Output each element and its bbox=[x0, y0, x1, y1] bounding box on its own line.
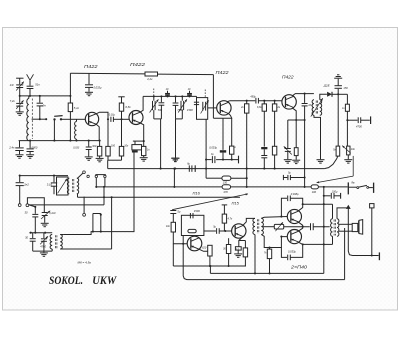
wire FM transformer bottom to bus C bbox=[77, 194, 79, 198]
svg-text:5,1к: 5,1к bbox=[74, 106, 80, 110]
gang dashes above IF box trimmer bbox=[204, 90, 206, 98]
svg-text:30: 30 bbox=[25, 211, 28, 215]
wire tank bus bbox=[143, 95, 196, 97]
transistor Q3 П422 IF amp 1 bbox=[217, 101, 231, 115]
antenna bbox=[27, 74, 30, 80]
wire Q2 collector riser to tank bus bbox=[140, 96, 143, 112]
capacitor on feedback box top bbox=[189, 213, 191, 218]
wire Q4 collector to IF transformer bbox=[293, 94, 314, 96]
wire jack down to bottom line bbox=[371, 208, 373, 256]
band switch contact circles row bbox=[87, 175, 89, 177]
svg-text:2,2к: 2,2к bbox=[146, 77, 153, 81]
terminal bar bottom right bbox=[378, 252, 380, 260]
wire 620 to bus D bbox=[209, 256, 211, 266]
trimmer capacitor 1/0 bbox=[16, 84, 23, 86]
wire tank riser 1 to bus A bbox=[160, 119, 162, 169]
wire rail F right riser bbox=[344, 228, 346, 280]
wire AM transformer right top bbox=[60, 234, 63, 236]
core line of L1 bbox=[31, 99, 33, 140]
ground below 1k bbox=[140, 157, 148, 159]
wire 2k down to resistor bbox=[274, 111, 276, 146]
capacitor 7500 bbox=[175, 96, 177, 102]
wire Q3 bias bus with series cap bbox=[206, 159, 212, 161]
wire rail E right riser bbox=[323, 244, 325, 273]
wire AM switch U loop bbox=[92, 214, 94, 232]
wire switch to oscillator section drop bbox=[53, 119, 55, 140]
wire coil tap to band switch bbox=[32, 118, 47, 120]
wire AM transformer left bottom ground link bbox=[51, 249, 53, 251]
wire primary bottom bbox=[332, 236, 334, 244]
interstage transformer secondary bbox=[261, 218, 263, 234]
wire antenna trimmer to input node bbox=[19, 88, 21, 96]
resistor 7k below transformer bbox=[269, 248, 271, 250]
feedback capacitor 0,048 upper bbox=[281, 198, 287, 216]
svg-text:0,033μ: 0,033μ bbox=[209, 146, 217, 150]
wire bus A AGC line bbox=[108, 168, 325, 170]
wire detector to tone pot bbox=[346, 120, 348, 146]
bias potentiometer output stage bbox=[274, 224, 283, 229]
electrolytic capacitor AGC bbox=[261, 147, 267, 149]
wire speaker feed vertical bbox=[323, 187, 325, 245]
wire AVC line down to bus B bbox=[304, 106, 306, 187]
wire bus B to C riser and AM line bbox=[103, 187, 105, 205]
wire 10k to Q5 base bbox=[173, 232, 187, 244]
terminal bar after 8mkf cap bbox=[194, 165, 196, 172]
svg-text:1,2к0: 1,2к0 bbox=[49, 211, 56, 215]
capacitor 5n bbox=[39, 96, 41, 103]
resistor 10k AF input bbox=[171, 222, 175, 232]
wire Q4 emitter down bbox=[293, 108, 297, 148]
wire top supply bus bbox=[70, 72, 145, 75]
transistor Q4 П422 IF amp 2 bbox=[282, 95, 296, 109]
wire secondary top to supply arrow bbox=[337, 208, 348, 219]
terminal circle bottom-left bbox=[18, 204, 21, 207]
electrolytic inline bus A bbox=[188, 165, 190, 171]
wire Q5 base drop to bus E bbox=[183, 244, 190, 280]
resistor bias bottom bbox=[272, 146, 276, 155]
svg-text:100μ: 100μ bbox=[332, 191, 338, 194]
svg-text:500: 500 bbox=[158, 108, 163, 112]
wire to AM terminal circle bbox=[83, 197, 85, 214]
ground below 2,4k bbox=[16, 154, 24, 156]
output transformer core bbox=[333, 219, 335, 235]
svg-text:9в: 9в bbox=[351, 181, 355, 185]
wire primary top to Q7 line bbox=[332, 204, 334, 219]
svg-text:4700: 4700 bbox=[356, 125, 362, 129]
wire 6,8k down to electrolytic bbox=[263, 111, 265, 146]
ground IF transformer bbox=[317, 159, 325, 161]
IF transformer windings bbox=[312, 100, 314, 116]
resistor 6,8k Q2 bias bbox=[119, 103, 123, 111]
ground below 300 bbox=[96, 157, 104, 159]
svg-text:1/0: 1/0 bbox=[10, 83, 14, 87]
trimmer capacitor tuning gang 1 bbox=[153, 96, 155, 100]
electrolytic capacitor 0,033 10v Q2 emitter bbox=[134, 141, 136, 145]
wire 6,8k to base line bbox=[121, 111, 123, 119]
resistor Q4 emitter bbox=[294, 148, 298, 156]
band switch S1 lever bbox=[54, 115, 62, 118]
wire W2 bus C drop bbox=[111, 197, 113, 249]
ground AM tank trimmer bbox=[40, 252, 48, 254]
wire switch posts to bus B bbox=[95, 178, 97, 187]
wire drop to electrolytic bbox=[222, 118, 224, 150]
wire secondary top to Q7 base bbox=[261, 217, 287, 219]
wire left supply drop to 5,1k bbox=[69, 73, 71, 103]
wire box bottom to Q5 collector bbox=[182, 236, 184, 244]
svg-text:П422: П422 bbox=[216, 70, 229, 76]
band switch S1 contacts bbox=[53, 118, 55, 120]
thermistor 150 line bbox=[206, 177, 222, 179]
potentiometer 5k volume bbox=[336, 146, 340, 156]
wire Q1 emitter to bottom bus bbox=[96, 124, 99, 140]
trimmer resistor Q4 emitter bias bbox=[287, 120, 289, 148]
wire diode to load bbox=[332, 93, 347, 95]
diode Д2Е detector bbox=[327, 92, 332, 97]
wire AM link 232 bbox=[29, 232, 52, 234]
svg-text:150: 150 bbox=[343, 86, 348, 90]
svg-text:100: 100 bbox=[312, 190, 317, 194]
svg-text:3,16: 3,16 bbox=[47, 182, 53, 186]
wire bus B supply rail bbox=[96, 186, 222, 188]
speaker bbox=[352, 223, 358, 231]
capacitor coupling to IF filter bbox=[196, 96, 198, 101]
power terminal bar bbox=[369, 187, 373, 189]
wire tank riser 2 to ground bars bbox=[175, 119, 177, 158]
wire emitter link to electrolytic bbox=[133, 140, 144, 142]
ground below 7,2k trimmer bbox=[16, 111, 24, 113]
wire Q5 emitter to 620 bbox=[199, 249, 208, 251]
wire Q8 emitter to center bbox=[298, 227, 303, 232]
potentiometer 10k tone bbox=[347, 146, 350, 155]
wire 0,01 cap to Q2 base bbox=[113, 118, 129, 120]
capacitor 2n2 to terminal bbox=[19, 176, 21, 183]
wire Q8 collector bbox=[298, 242, 303, 245]
volume pot wiper long arrow to AF bbox=[352, 156, 354, 176]
transistor Q5 П16 AF preamp bbox=[187, 236, 202, 251]
wire center tap to bias pot bbox=[262, 226, 274, 228]
power switch lever bbox=[359, 185, 367, 187]
wire IF transformer bottoms to ground bbox=[314, 115, 321, 159]
wire speaker return vertical bbox=[348, 208, 352, 256]
transistor Q2 П422 mixer bbox=[129, 111, 143, 125]
ground trimmer bbox=[284, 159, 292, 161]
interstage transformer core bbox=[256, 219, 258, 234]
resistor 5,1k bbox=[68, 103, 72, 112]
output transformer primary bbox=[331, 219, 333, 237]
wire Q1 collector bbox=[96, 112, 108, 119]
svg-text:6,8к: 6,8к bbox=[125, 105, 131, 109]
capacitor 500 bbox=[160, 96, 162, 102]
wire 2k down through bus A and 150-line to bus B bbox=[246, 113, 248, 187]
ground below bypass cap bbox=[85, 156, 93, 158]
terminal bar AF out bbox=[370, 116, 372, 124]
wire line244 to output transformer bbox=[324, 243, 333, 245]
ground AM trimmer bbox=[41, 222, 49, 224]
svg-text:2н2: 2н2 bbox=[23, 183, 29, 187]
capacitor 10 second bbox=[189, 91, 191, 93]
battery 9V bar bbox=[347, 182, 349, 194]
svg-text:0,048μ: 0,048μ bbox=[291, 192, 299, 196]
ground mid tank riser bbox=[172, 157, 180, 159]
svg-text:П422: П422 bbox=[130, 62, 145, 68]
svg-text:П16: П16 bbox=[193, 191, 201, 196]
wire bottom line to terminal bbox=[353, 255, 379, 257]
svg-text:UKW: UKW bbox=[92, 273, 117, 287]
output transformer secondary bbox=[337, 219, 339, 237]
ground below 0,033 cap bbox=[85, 91, 93, 93]
thermistor 150 bbox=[222, 176, 231, 180]
capacitor 10mkf to ground bar bbox=[324, 195, 331, 197]
svg-text:470: 470 bbox=[223, 190, 228, 194]
capacitor 150 to top ground bbox=[337, 89, 339, 95]
AM switch circle and lever bbox=[26, 204, 29, 207]
capacitor 5mkf AVC branch bbox=[282, 175, 284, 180]
wire 10k column to bus D bbox=[172, 244, 174, 266]
transistor Q7 П40 output upper bbox=[287, 209, 301, 223]
coil L2 RF bbox=[76, 119, 78, 121]
resistor 1k detector load bbox=[346, 94, 348, 104]
svg-text:0,033μ: 0,033μ bbox=[288, 249, 296, 253]
wire bus D bbox=[173, 265, 246, 267]
wire AF takeoff diagonal bbox=[172, 194, 248, 210]
wire long AM feed from Q2 emitter cap down-left bbox=[64, 153, 134, 235]
svg-text:51n: 51n bbox=[35, 83, 40, 87]
wire IF box to Q3 base bbox=[208, 107, 217, 109]
wire box right to coupling cap bbox=[204, 230, 216, 232]
trimmer inside IF box bbox=[202, 102, 204, 111]
svg-text:5н: 5н bbox=[43, 104, 47, 108]
power switch contact circles bbox=[349, 186, 357, 188]
gang dashes above trimmer bbox=[153, 89, 155, 97]
wire divider link to bus A bbox=[108, 159, 122, 161]
wire primary bottom to bus E bbox=[254, 235, 256, 274]
wire L2 to Q1 base bbox=[77, 118, 86, 120]
wire emitter bias link bbox=[288, 119, 305, 121]
svg-text:7,2к: 7,2к bbox=[10, 99, 16, 103]
svg-text:6,8к: 6,8к bbox=[257, 106, 262, 109]
trimmer capacitor 4700 AM tank bbox=[43, 233, 45, 239]
wire volume pot bottom to bus A curve bbox=[324, 156, 338, 169]
svg-text:100: 100 bbox=[111, 145, 116, 148]
capacitor 3,1 FM det bbox=[53, 176, 55, 183]
svg-text:620: 620 bbox=[202, 246, 207, 249]
capacitor at center line bbox=[310, 223, 312, 230]
resistor 4,7k Q6 bias bbox=[222, 214, 226, 223]
coil L1 input bbox=[28, 96, 30, 99]
wire Q6 collector to interstage transformer bbox=[243, 218, 255, 225]
FM discriminator transformer box bbox=[57, 177, 69, 195]
wire AM transformer right bottom to W2 bbox=[60, 248, 111, 250]
tone pot wiper arrow bbox=[342, 146, 351, 154]
wire rail E bbox=[210, 272, 323, 274]
wire tank link 1 bbox=[154, 118, 162, 120]
wire Q7 collector bbox=[298, 204, 303, 211]
svg-text:П422: П422 bbox=[84, 64, 98, 70]
AM transformer windings bbox=[50, 235, 52, 250]
svg-text:2×П40: 2×П40 bbox=[290, 264, 308, 269]
trimmer capacitor 7,2k to ground bbox=[19, 96, 21, 103]
wire Q7 emitter to center bbox=[298, 222, 303, 227]
svg-text:1500: 1500 bbox=[194, 209, 200, 213]
feedback box Q5 bbox=[181, 215, 204, 235]
svg-text:П15: П15 bbox=[232, 201, 240, 206]
IF transformer tuning arrow bbox=[311, 98, 323, 116]
transistor Q1 П422 RF amp bbox=[85, 112, 98, 125]
wire FM det top line bbox=[20, 175, 68, 177]
wire AM bridge bbox=[27, 198, 44, 212]
capacitor 0,033 decoupling top-left bbox=[88, 73, 90, 84]
transistor Q8 П40 output lower bbox=[287, 230, 301, 244]
capacitor 30 AM bbox=[34, 207, 36, 214]
wire rail E left riser link bbox=[209, 266, 211, 273]
interstage transformer primary bbox=[253, 218, 255, 234]
resistor 620 Q5 emitter bbox=[208, 245, 212, 256]
FM transformer windings bbox=[67, 178, 69, 194]
svg-text:SOKOL.: SOKOL. bbox=[49, 273, 83, 287]
svg-text:150: 150 bbox=[223, 181, 228, 185]
ground stem above bus A mid bbox=[174, 158, 176, 162]
wire Q3 collector line bbox=[227, 100, 255, 103]
wire Q2 emitter drop bbox=[140, 123, 143, 146]
svg-text:0,01μ: 0,01μ bbox=[109, 114, 116, 117]
transistor Q6 П15 driver bbox=[232, 224, 246, 238]
wire 5,1k to front-end bottom bus bbox=[69, 112, 71, 141]
wire Q6 emitter bbox=[239, 237, 243, 247]
svg-text:Д2Е: Д2Е bbox=[323, 84, 331, 88]
svg-text:П422: П422 bbox=[282, 75, 294, 81]
wire tap to 6,8k bbox=[121, 97, 123, 103]
resistor 100 inline bus B bbox=[311, 185, 318, 189]
capacitor 10 first bbox=[167, 91, 169, 93]
resistor 2,2k inline top bus bbox=[145, 72, 158, 76]
wire rail F long bottom bbox=[190, 279, 345, 281]
wire front-end bottom bus bbox=[19, 140, 100, 142]
capacitor 51n antenna series bbox=[27, 85, 34, 87]
terminal bar right of bias bus bbox=[238, 156, 240, 164]
wire switch to RF coil L2 bbox=[61, 118, 77, 120]
wire secondary top to diode bbox=[320, 94, 327, 100]
resistor inside feedback box bbox=[188, 229, 196, 232]
electrolytic capacitor Q3 emitter bbox=[220, 150, 226, 152]
ground Q4 emitter resistor bbox=[292, 159, 300, 161]
wire Q5 collector to box bbox=[194, 235, 196, 238]
wire tank link 2 bbox=[176, 118, 183, 120]
wire Q3 emitter row bbox=[213, 117, 232, 119]
ground 0,1 cap bbox=[234, 253, 242, 255]
wire bus A to bus B link bbox=[173, 169, 175, 187]
wire speaker leads bbox=[339, 223, 352, 225]
capacitor 5mkf AF input bbox=[170, 210, 176, 212]
svg-text:0,033μ: 0,033μ bbox=[94, 86, 102, 90]
feedback capacitor 0,033 lower bbox=[281, 248, 287, 258]
rail tap bar for 6,8k bbox=[118, 96, 124, 98]
antenna trimmer top plate bbox=[16, 77, 23, 79]
capacitor 4700 output branch bbox=[347, 119, 357, 121]
jack square top bbox=[370, 204, 374, 208]
resistor 30 Q6 lower bias bbox=[228, 238, 230, 244]
AVC capacitor from collector node bbox=[304, 94, 306, 103]
IF bandfilter box bbox=[197, 98, 208, 120]
trimmer capacitor 1,2k AM bbox=[42, 212, 48, 214]
svg-text:5μ: 5μ bbox=[177, 210, 180, 214]
rail tap bar 4,7k bbox=[222, 204, 228, 206]
wire riser IF box to bus A bbox=[205, 119, 207, 178]
capacitor 0,01 interstage bbox=[110, 117, 112, 122]
wire supply drop to Q3 stage bbox=[212, 75, 214, 119]
wire secondary bottom to Q8 base bbox=[261, 235, 287, 248]
resistor 1k Q2 emitter bbox=[142, 146, 146, 155]
wire tone pot to ground bbox=[347, 155, 349, 159]
svg-text:4,7к: 4,7к bbox=[228, 217, 233, 220]
svg-text:0,033: 0,033 bbox=[73, 147, 80, 150]
svg-text:1500: 1500 bbox=[187, 108, 193, 112]
resistor Q3 emitter bbox=[231, 118, 233, 146]
ground tone pot bbox=[344, 159, 352, 161]
wire detector to volume pot bbox=[337, 94, 339, 146]
svg-text:2,4к: 2,4к bbox=[8, 145, 15, 149]
FM switch lever and contact bbox=[78, 173, 83, 178]
resistor Q6 emitter right bbox=[239, 240, 246, 242]
wire antenna input bus bbox=[20, 95, 71, 97]
capacitor 0,1 Q6 emitter bbox=[235, 247, 241, 250]
svg-text:300: 300 bbox=[92, 145, 97, 148]
trimmer capacitor tuning gang 2 bbox=[181, 96, 183, 100]
wire bus C bbox=[78, 196, 241, 198]
svg-text:Мб = 4,5в: Мб = 4,5в bbox=[78, 261, 92, 265]
ground above 150 cap bbox=[334, 77, 342, 79]
capacitor 5mkf interstage bbox=[216, 228, 218, 234]
